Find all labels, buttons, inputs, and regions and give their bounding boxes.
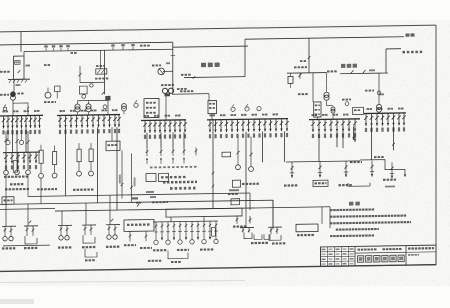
meter circle right of T4 [345, 102, 349, 106]
transformer T2b [88, 101, 90, 104]
starter stack S2 [53, 152, 57, 165]
label RB2 box [313, 180, 328, 187]
label aux [44, 101, 56, 103]
breaker B2-QF2 [65, 115, 67, 128]
notes title shuo-ming [349, 202, 353, 206]
breaker B5-QF1 [312, 120, 314, 132]
unit U5 header [106, 224, 120, 226]
label right of T3 knot [177, 88, 187, 90]
wire T1 jog right [13, 103, 28, 116]
branch circuit RB3 [345, 161, 347, 177]
unit U2 cable loop [25, 236, 37, 244]
unit U10 breaker b [276, 227, 278, 234]
wire station horizontal bus [287, 72, 327, 75]
breaker B3-QF5 [164, 120, 166, 133]
breaker B6-QF2 [371, 113, 373, 126]
wire long feeder to mid rect [212, 120, 214, 209]
unit U3 motor b [65, 236, 69, 240]
bus B4 [207, 119, 288, 120]
breaker B2-QF3 [70, 115, 72, 128]
unit U9 cable loops [244, 232, 252, 238]
label starter group 2 [73, 188, 94, 190]
disconnect switch QS1 in station [299, 74, 302, 77]
label stack top b [170, 187, 196, 190]
wire B4 long feeder c [284, 131, 286, 162]
branch circuit RB1 [291, 162, 293, 178]
breaker B1b-QF4 [23, 152, 25, 163]
unit U3 header [58, 224, 72, 226]
unit U2 breaker b [32, 226, 34, 236]
wire B2 long feeder b [97, 127, 99, 203]
unit U4 cable loop [83, 235, 95, 243]
unit U10 label [272, 242, 285, 244]
relay box B3 text row 1 [146, 102, 156, 104]
breaker B4-QF4 [226, 120, 228, 133]
label small box [228, 193, 238, 195]
wire B6 long feeder a [371, 126, 373, 160]
branch pair BP2 [249, 216, 251, 224]
relay box at B5 left [314, 102, 321, 117]
unit U3 label [58, 246, 71, 248]
bus B3 [141, 119, 186, 122]
relay box at B4 left [208, 101, 217, 114]
wire B4 feeder b to header [262, 148, 264, 162]
label metering [44, 64, 50, 66]
label at knot kVA [95, 78, 108, 80]
breaker B6-QF6 [393, 113, 395, 126]
title block signature blobs [322, 249, 326, 251]
small junction box right of B3 [222, 152, 231, 157]
breaker B3-QF8 [179, 120, 181, 133]
breaker B3-QF4 [159, 120, 161, 133]
wire B2 long feeder c [116, 127, 118, 210]
label starter group [37, 188, 57, 190]
label LB b [140, 247, 152, 249]
label row above B6 [367, 108, 373, 110]
small marker 1 [146, 191, 154, 193]
sub horizontal tie [80, 81, 105, 83]
relay box B3 text row 3 [146, 112, 156, 114]
breaker B1-QF9 [39, 115, 41, 128]
unit U4 second tier label [85, 259, 95, 261]
starter stack S3 [77, 149, 81, 162]
long feeder pair b [131, 153, 133, 202]
label PT1 [152, 64, 161, 66]
title block left grid rows [321, 250, 356, 253]
wire B2 long feeder a [65, 128, 67, 196]
wire T3 overhead jog to B4 [172, 93, 209, 96]
breaker B1-QF6 [25, 116, 27, 129]
tap tick 3 on line3 [132, 47, 134, 50]
unit U4 second tier loop [85, 249, 97, 257]
label pei-dian-zhan-fang [403, 51, 423, 54]
tick and label on station drop [308, 56, 311, 59]
wire B2 drop to contactor box [111, 127, 113, 141]
breaker B2-QF10 [109, 115, 111, 128]
mid branch MB3 [167, 222, 169, 240]
bus B1 [0, 114, 43, 117]
breaker B6-QF4 [382, 113, 384, 126]
unit U4 breaker b [90, 225, 92, 235]
motor branch under B4 b [250, 137, 252, 167]
breaker B4-QF15 [286, 119, 288, 131]
unit U10 header [268, 226, 282, 228]
extra comp U5 [111, 219, 113, 222]
label row B1b [4, 175, 28, 177]
breaker B5-QF7 [348, 119, 350, 131]
breaker B5-QF8 [354, 119, 356, 132]
breaker B1b-QF1 [5, 153, 7, 164]
breaker B4-QF12 [270, 119, 272, 131]
second tier bracket mid [168, 250, 188, 259]
unit U10 breaker a [270, 227, 272, 234]
cable route end drop [404, 169, 406, 176]
sub-trunk rectangle [166, 208, 242, 217]
label motor group 1 [5, 188, 29, 190]
wire right feeder to T5 [378, 73, 380, 104]
label row under B3 a [150, 166, 197, 169]
breaker B6-QF7 [398, 113, 400, 126]
mid branch MB8 [197, 221, 199, 239]
tick on jog [27, 107, 29, 109]
switch inside K1 [18, 70, 21, 73]
branch pair BP1 [236, 216, 238, 224]
label LB a [124, 244, 136, 246]
label mid row lower [148, 260, 161, 262]
relay box B5 text row 1 [315, 104, 320, 106]
mid branch MB6 [185, 222, 187, 240]
transformer T3 knot circle a [162, 88, 167, 93]
breaker B6-QF3 [376, 113, 378, 126]
tap tick 1 on line3 [112, 47, 114, 50]
LB drop b [145, 231, 147, 241]
trunk line T-c [55, 207, 330, 211]
feeder drop to unit U4 [85, 203, 87, 225]
mid branch MB9 [203, 221, 205, 239]
inner relay box in K1 [15, 61, 20, 65]
unit U9 bracket a [242, 228, 244, 233]
label above T3 knot [161, 84, 174, 86]
transformer T2a [77, 101, 79, 104]
label above trunk Tc [152, 201, 168, 203]
title block outer frame [321, 245, 437, 266]
label right of T1 [18, 93, 24, 95]
wire jog corner down to B4 box [208, 94, 210, 101]
label in contactor box [108, 144, 118, 146]
label T4 [298, 93, 308, 95]
unit U10 feeder [272, 200, 274, 227]
mid branch MB5 [179, 222, 181, 240]
mid branch MB7 [191, 221, 193, 239]
wire B1 extended feeder 2 [25, 128, 27, 152]
starter stack S1 [39, 150, 43, 163]
relay box B5r text [354, 109, 360, 111]
wire station to B5 relay box [312, 73, 314, 102]
breaker B4-QF13 [275, 119, 277, 131]
wire B4 long feeder a [245, 132, 247, 208]
label mid row 1 [153, 249, 166, 251]
wire B4 box to bus [211, 114, 213, 120]
label RB3 [339, 184, 352, 186]
motor circle under box [82, 94, 86, 98]
unit U2 header [24, 225, 38, 227]
title block drawing number [408, 247, 434, 250]
label left of T1 [0, 94, 9, 96]
vertical label beside feeder b [134, 177, 136, 186]
unit U5 breaker a [108, 225, 110, 235]
breaker B1-QF7 [30, 116, 32, 129]
wire stepped cable route [360, 159, 405, 170]
bus B tie to station [173, 46, 248, 47]
unit U5 motor b [113, 235, 117, 239]
left distribution box LB [124, 220, 154, 232]
wire bus C drop to station [308, 38, 310, 73]
long feeder pair a [121, 151, 123, 199]
motor branch under B4 a [237, 137, 239, 165]
mid branch MB1 [155, 222, 157, 240]
wire B1 extended feeder 1 [12, 128, 14, 152]
contactor KM4 [183, 148, 185, 156]
label row above B1 [3, 110, 9, 112]
transformer T4 lower [331, 107, 335, 111]
label stack top a [163, 181, 197, 184]
dist box D2 [159, 173, 169, 181]
label mid row 2 [177, 249, 189, 251]
meter on B1 [3, 107, 6, 110]
breaker B5-QF2 [318, 119, 320, 132]
label after taps [71, 52, 77, 54]
wire box to header a [170, 217, 172, 222]
trunk line T-a [28, 193, 250, 196]
motor box under tie [79, 86, 87, 94]
unit U9 header [240, 226, 254, 228]
breaker B3-QF9 [184, 120, 186, 133]
unit U5 label [106, 246, 119, 248]
bus B6 [364, 112, 406, 115]
wire T4 to lower winding [326, 101, 328, 106]
label right feeder b [369, 69, 375, 71]
title block divider 2 [405, 246, 407, 266]
wire bus B leftward tie [184, 76, 245, 79]
breaker B4-QF5 [231, 120, 233, 133]
LB drop a [129, 231, 131, 241]
relay box at B3 left [144, 98, 159, 117]
extra comp U2 [29, 221, 31, 224]
pilot lamp on T5 feeder [377, 91, 381, 95]
breaker B5-QF4 [330, 119, 332, 132]
feeder drop to unit U1 [5, 197, 7, 227]
unit U9 feeder [245, 208, 247, 228]
header for lower-right branches [286, 161, 360, 162]
breaker B1b-QF6 [35, 152, 37, 163]
unit U5 breaker b [114, 225, 116, 235]
transformer T5 [377, 104, 382, 109]
breaker B2-QF8 [98, 115, 100, 128]
relay box B4 text row 1 [209, 103, 215, 105]
unit U1 motor a [3, 236, 7, 240]
breaker B6-QF5 [387, 113, 389, 126]
wire B6 long feeder c [342, 126, 344, 148]
cable line under bottom-left units [3, 244, 50, 247]
breaker B2-QF9 [103, 115, 105, 128]
unit U1 label [2, 247, 15, 249]
transformer T3 winding blob [165, 93, 171, 96]
relay box B5 text row 3 [315, 113, 320, 115]
wire L-branch vertical [385, 49, 387, 73]
unit U4 label [82, 246, 95, 248]
starter stack S4 [89, 149, 93, 162]
note line 5 [330, 234, 374, 237]
label row above B5 [312, 114, 318, 116]
unit U4 header [82, 224, 96, 226]
note line 3 [330, 221, 411, 224]
dist box D1 [146, 173, 156, 181]
breaker B4-QF9 [253, 119, 255, 132]
trunk line T-d short [0, 208, 55, 211]
starter rect on B1b [13, 161, 17, 173]
relay box B3 text row 2 [146, 107, 156, 109]
unit U10 cable loop [269, 234, 281, 240]
wire bus B corner down [244, 46, 246, 77]
title block drawing title [358, 256, 364, 262]
relay box B5 text row 2 [315, 109, 320, 111]
transformer T1 winding knot [11, 92, 16, 97]
contactor box under B2 [106, 141, 120, 151]
motor circle under B1 drop a [6, 140, 10, 144]
breaker B2-QF12 [118, 115, 120, 128]
small marker 2 [150, 196, 156, 198]
label RB5 [383, 179, 396, 181]
scan smudge bottom-left [0, 299, 34, 304]
wire B4 long feeder b [262, 132, 264, 163]
extra taps on line3 [45, 48, 47, 51]
label on overhead jog [180, 90, 193, 92]
wire K1 down leg [13, 79, 15, 91]
station name label [341, 64, 345, 68]
wire L-branch to distribution house [386, 48, 401, 50]
breaker B1b-QF3 [17, 152, 19, 163]
label bold left a [10, 183, 23, 185]
wire B3 long feeder b [160, 133, 162, 148]
label T5 [365, 90, 374, 92]
bus C overhead line to factory [245, 37, 404, 39]
voltage transformer PT1 on feeder [163, 70, 173, 72]
boxed label left margin [2, 197, 14, 205]
hatched box sub [100, 50, 102, 68]
drawing frame bottom border [0, 265, 436, 272]
motor branch M2 [16, 131, 18, 170]
wire incoming feeder from top border [20, 32, 22, 52]
title block project name row [358, 248, 377, 250]
wire T2 header [78, 99, 109, 101]
transformer T3 knot circle b [168, 88, 173, 93]
mid branch MB11 [215, 221, 217, 239]
label RB1 [284, 184, 297, 186]
starter rect in mid row [212, 228, 216, 237]
wire B5 long feeder b [336, 132, 338, 148]
label row above B2 [60, 110, 66, 112]
wire B6 long feeder b [393, 126, 395, 151]
label hatched box [96, 65, 105, 67]
wire line3 tie with taps [24, 49, 173, 51]
cable tray bracket [348, 183, 370, 187]
label pei-dian-ping [161, 176, 186, 179]
breaker B5-QF6 [342, 119, 344, 132]
mid branch MB2 [161, 222, 163, 240]
note line 4 [336, 228, 379, 231]
label branch pair [233, 225, 246, 227]
note line 1 [330, 208, 374, 211]
breaker B1-QF4 [16, 116, 18, 129]
note line 2 [330, 215, 406, 218]
breaker B2-QF1 [59, 115, 61, 128]
unit U9 bracket b [248, 228, 250, 233]
breaker B6-QF1 [365, 114, 367, 127]
breaker B4-QF11 [264, 119, 266, 131]
wire M3 down to trunk [27, 175, 29, 197]
contactor KM1 [146, 148, 148, 156]
label left of K1 [0, 71, 10, 73]
section transformer [122, 104, 127, 109]
wire B5 long feeder a [318, 132, 320, 162]
wire line3 corner into K1 [23, 52, 25, 57]
mid branch MB4 [173, 222, 175, 240]
contactor KM3 [172, 148, 174, 156]
breaker B3-QF6 [169, 120, 171, 133]
hatch bus under K1 [8, 78, 30, 80]
label row above B3 [144, 115, 150, 117]
hatch marks [9, 80, 11, 83]
wire B5 long feeder c [354, 131, 356, 142]
pilot circle on tie [90, 84, 93, 87]
label on leftward tie [181, 74, 191, 76]
junction knot B2 [105, 96, 110, 101]
small box under B4 [233, 180, 241, 187]
transformer T4 upper [326, 73, 328, 92]
second contact row under B3 [146, 158, 148, 164]
breaker B1b-QF2 [11, 153, 13, 164]
breaker B3-QF2 [149, 120, 151, 133]
switch on leftward tie [193, 76, 195, 79]
unit U4 breaker a [84, 225, 86, 235]
wire feeder drop to board B3 [172, 42, 174, 94]
breaker B3-QF1 [144, 120, 146, 133]
fuse F1 in station [288, 76, 293, 83]
breaker B1-QF3 [12, 116, 14, 129]
unit U5 motor a [107, 235, 111, 239]
trunk line T-b [0, 200, 273, 204]
tick on feeder [171, 55, 176, 57]
wire trunk Tc corner down [329, 207, 331, 228]
sub-board B1b [3, 151, 40, 154]
label mid row 3 [200, 248, 213, 250]
wire B3 long feeder a [146, 133, 148, 148]
motor circle under B1 drop b [19, 140, 23, 144]
breaker B1-QF1 [3, 116, 5, 129]
knot mark a [102, 92, 104, 95]
breaker B3-QF3 [154, 120, 156, 133]
wire right feeder horizontal to B6 [340, 72, 388, 75]
label station equipment [294, 66, 307, 68]
breaker B1-QF5 [21, 116, 23, 129]
bus B5 [309, 118, 360, 121]
unit U3 breaker a [60, 225, 62, 235]
vertical label beside feeder a [119, 175, 121, 184]
bus B2 [57, 114, 120, 117]
meter on B3 left [134, 103, 138, 107]
label on down leg [16, 84, 21, 86]
breaker B6-QF8 [403, 113, 405, 126]
